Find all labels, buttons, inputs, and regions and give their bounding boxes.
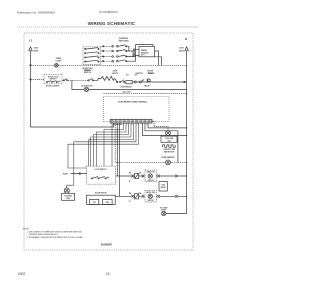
label selector switch xyxy=(82,68,93,72)
terminal bake right xyxy=(175,175,177,178)
wire broil row xyxy=(115,195,186,197)
svg-text:Publication No. 5995599604: Publication No. 5995599604 xyxy=(17,10,55,14)
terminal N xyxy=(185,47,189,51)
svg-text:120V: 120V xyxy=(34,48,39,50)
svg-text:4 PT.: 4 PT. xyxy=(141,54,146,57)
broil ignitor box xyxy=(145,191,156,203)
switch bake relay xyxy=(135,173,139,178)
svg-text:RELAY: RELAY xyxy=(144,84,150,87)
wire N bus vertical xyxy=(186,51,188,214)
wire labelled branch xyxy=(71,173,88,175)
label oven light xyxy=(56,58,63,62)
motor lock vertical wire xyxy=(72,80,84,89)
svg-text:LOCK SWITCH: LOCK SWITCH xyxy=(95,169,108,171)
label bake wire code xyxy=(129,173,142,183)
bake ignitor box xyxy=(145,170,156,182)
node mid row xyxy=(184,81,185,82)
door lock switch box xyxy=(44,74,62,84)
terminal mid circle 1 xyxy=(134,81,136,83)
wire spark module input xyxy=(134,50,139,56)
wire L1 bus vertical xyxy=(30,51,32,127)
cooling fan label box xyxy=(62,193,75,200)
motor lock xyxy=(84,87,89,92)
wire L1 to oven light xyxy=(31,64,55,66)
wire spark module to neutral xyxy=(136,45,162,66)
svg-text:2. SCHEMATIC SHOWN WITH POWER: 2. SCHEMATIC SHOWN WITH POWER OFF, DOOR … xyxy=(27,236,84,239)
label spark module xyxy=(141,49,149,57)
wire comb pin left 4 xyxy=(94,123,129,166)
convection fan box xyxy=(161,136,177,142)
wire mid row to N xyxy=(132,81,187,83)
label broil wire code xyxy=(129,193,142,203)
svg-text:ELECTRONIC OVEN CONTROL: ELECTRONIC OVEN CONTROL xyxy=(118,101,148,103)
svg-text:(DOOR CLOSED): (DOOR CLOSED) xyxy=(46,86,59,88)
wire comb pin right 3 xyxy=(145,123,178,162)
motor cooling fan xyxy=(64,188,69,193)
switch surface unit 4 xyxy=(103,60,127,62)
wire selector to surface bank xyxy=(101,46,104,61)
svg-text:SEVERE SHOCK MAY RESULT.: SEVERE SHOCK MAY RESULT. xyxy=(29,233,59,236)
spark module box xyxy=(139,47,155,57)
broil row terminals xyxy=(131,195,144,198)
label convection fan motor xyxy=(163,149,176,153)
wire comb pin cooling fan xyxy=(74,123,136,185)
terminal broil right xyxy=(175,195,177,198)
notes block xyxy=(23,229,84,239)
svg-text:PLCF389CCC: PLCF389CCC xyxy=(99,10,119,14)
svg-text:IGNITOR: IGNITOR xyxy=(147,180,154,182)
label 120V 60HZ right xyxy=(179,48,185,53)
label mid row 1 xyxy=(120,84,150,93)
clock box xyxy=(87,195,116,204)
svg-text:0302: 0302 xyxy=(18,272,26,276)
svg-text:IGNITOR: IGNITOR xyxy=(136,73,144,75)
latch switch box xyxy=(87,166,116,184)
svg-text:120V: 120V xyxy=(179,48,184,50)
node junction L1 oven light xyxy=(30,65,31,66)
switch surface unit 3 xyxy=(103,55,127,57)
wire sensor to neutral xyxy=(170,161,186,163)
label surface switches xyxy=(119,37,130,42)
svg-text:60HZ: 60HZ xyxy=(34,50,40,52)
wire cooling fan drop xyxy=(67,185,74,188)
terminal bake mid right xyxy=(157,175,159,178)
wire element to relay row xyxy=(115,79,118,83)
ignitor bake xyxy=(148,174,152,178)
svg-text:L1: L1 xyxy=(29,39,33,43)
terminal on wire xyxy=(79,173,81,175)
label door lock switch xyxy=(48,76,59,80)
svg-text:N: N xyxy=(185,37,187,41)
label conv fan winding xyxy=(165,137,174,142)
wire comb pin left 5 xyxy=(91,123,132,166)
bake row terminals xyxy=(131,175,144,178)
wire door lock to lock switch xyxy=(62,79,88,81)
electronic oven control box xyxy=(103,97,169,122)
oven selector switch box xyxy=(83,47,101,65)
terminal spark module upper xyxy=(133,49,135,51)
switch surface unit 1 xyxy=(103,45,127,47)
wire oven light 2 xyxy=(166,213,187,215)
sensor probe xyxy=(166,160,171,165)
svg-text:316B09F1: 316B09F1 xyxy=(101,244,113,247)
switch after door lock xyxy=(63,79,68,81)
svg-text:W-BK: W-BK xyxy=(63,173,68,175)
wire comb pin right 1 xyxy=(152,121,168,130)
label wire code xyxy=(63,173,68,175)
terminal mid row dot xyxy=(117,81,118,82)
wire comb pin sensor xyxy=(115,123,165,162)
connector comb EOC xyxy=(110,119,152,123)
switch selector row 3 xyxy=(85,56,100,58)
svg-text:MOTOR: MOTOR xyxy=(112,73,118,75)
primary box xyxy=(90,199,99,204)
fuse box mid xyxy=(126,80,132,83)
wire bake row xyxy=(116,175,187,177)
svg-text:60HZ: 60HZ xyxy=(179,50,185,52)
connector pin marks below comb xyxy=(112,123,147,126)
svg-text:SWITCH: SWITCH xyxy=(84,72,92,74)
wire surface switch bus right xyxy=(126,45,135,62)
switch latch contacts xyxy=(91,177,109,179)
switch selector row 4 xyxy=(85,60,100,62)
switch surface unit 2 xyxy=(103,50,127,52)
lamp oven light 2 xyxy=(162,211,166,215)
gas valve box xyxy=(159,182,167,191)
terminal L1 xyxy=(29,47,33,51)
wire comb pin bake xyxy=(116,123,118,176)
lamp oven light xyxy=(55,64,59,68)
ignitor broil xyxy=(148,194,152,198)
node junction L1 door lock xyxy=(30,79,31,80)
header rule xyxy=(17,26,199,28)
relay coil mid xyxy=(147,79,150,83)
svg-text:NOTE:: NOTE: xyxy=(23,229,30,231)
terminal broil mid right xyxy=(157,195,159,198)
switch selector row 2 xyxy=(85,52,100,54)
switch oven relay xyxy=(119,80,124,83)
svg-text:1. DISCONNECT POWER AT FUSE BO: 1. DISCONNECT POWER AT FUSE BOX BEFORE S… xyxy=(27,231,83,234)
wire comb pin right 2 xyxy=(148,123,187,128)
label lock switch xyxy=(84,70,92,74)
svg-text:LIGHT: LIGHT xyxy=(56,60,63,62)
svg-text:IGNITOR: IGNITOR xyxy=(147,200,154,202)
svg-text:SWITCH: SWITCH xyxy=(50,79,57,81)
node N bus junctions xyxy=(186,65,187,197)
svg-text:16: 16 xyxy=(106,272,110,276)
switch selector row 1 xyxy=(85,48,100,50)
wire comb pin broil xyxy=(118,123,120,196)
wire comb pin left 6 xyxy=(89,123,134,166)
svg-text:SWITCHES: SWITCHES xyxy=(119,41,130,43)
terminal spark module lower xyxy=(133,55,135,57)
wire lock switch to element xyxy=(93,79,101,81)
label mid row upper 1 xyxy=(112,71,118,75)
motor convection fan xyxy=(166,131,171,136)
label 120V 60HZ left xyxy=(34,48,40,53)
inductor conv fan winding xyxy=(163,145,176,147)
schematic border frame xyxy=(24,33,193,250)
wire comb pin right 4 xyxy=(143,123,187,135)
switch broil relay xyxy=(135,194,139,199)
svg-text:MOTOR: MOTOR xyxy=(148,71,154,73)
wire comb pin left 1 xyxy=(112,123,121,166)
wire comb pin latch feed xyxy=(68,123,139,168)
switch lock xyxy=(88,78,94,81)
wire comb pin left 2 xyxy=(104,123,124,166)
label mid row upper 4 xyxy=(148,71,154,75)
switch mid 2 xyxy=(139,80,144,83)
wire lock motor to neutral xyxy=(89,88,187,90)
svg-text:BROIL IGN: BROIL IGN xyxy=(146,192,155,194)
switch door lock contacts xyxy=(46,81,60,83)
svg-text:WIRING SCHEMATIC: WIRING SCHEMATIC xyxy=(88,21,136,26)
wire L1 to comb xyxy=(31,123,114,127)
wire EOC neutral top xyxy=(103,92,186,94)
label cooling fan xyxy=(64,195,73,200)
svg-text:DOOR MOTOR: DOOR MOTOR xyxy=(95,192,108,194)
svg-text:OVEN SENSOR: OVEN SENSOR xyxy=(161,157,175,159)
label oven light 2 xyxy=(160,207,168,211)
svg-text:DOOR RELAY: DOOR RELAY xyxy=(120,85,132,88)
wire L1 to door lock xyxy=(31,79,45,81)
wire comb pin left 3 xyxy=(97,123,127,166)
wire oven light to N bus xyxy=(58,64,186,66)
secondary box xyxy=(103,199,112,204)
resistor lock element xyxy=(101,76,115,80)
svg-text:FAN MOTOR: FAN MOTOR xyxy=(164,151,175,154)
label gas valve xyxy=(161,183,166,189)
